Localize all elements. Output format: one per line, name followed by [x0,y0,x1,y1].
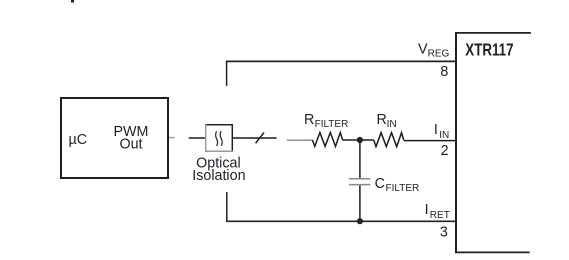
svg-text:8: 8 [440,64,448,80]
svg-text:I: I [425,202,429,218]
svg-text:Out: Out [119,137,142,153]
svg-text:IN: IN [439,130,449,141]
svg-text:FILTER: FILTER [386,183,420,194]
svg-text:V: V [418,42,428,58]
svg-text:R: R [377,112,387,128]
svg-text:FILTER: FILTER [315,119,349,130]
svg-text:IN: IN [387,119,397,130]
svg-text:3: 3 [440,225,448,241]
svg-text:Isolation: Isolation [192,168,245,184]
svg-text:µC: µC [69,132,88,148]
svg-text:XTR117: XTR117 [465,40,513,60]
svg-text:R: R [304,112,314,128]
svg-text:2: 2 [441,143,449,159]
svg-text:I: I [434,122,438,138]
svg-text:REG: REG [428,49,450,60]
svg-text:C: C [375,176,385,192]
svg-text:RET: RET [430,210,450,221]
